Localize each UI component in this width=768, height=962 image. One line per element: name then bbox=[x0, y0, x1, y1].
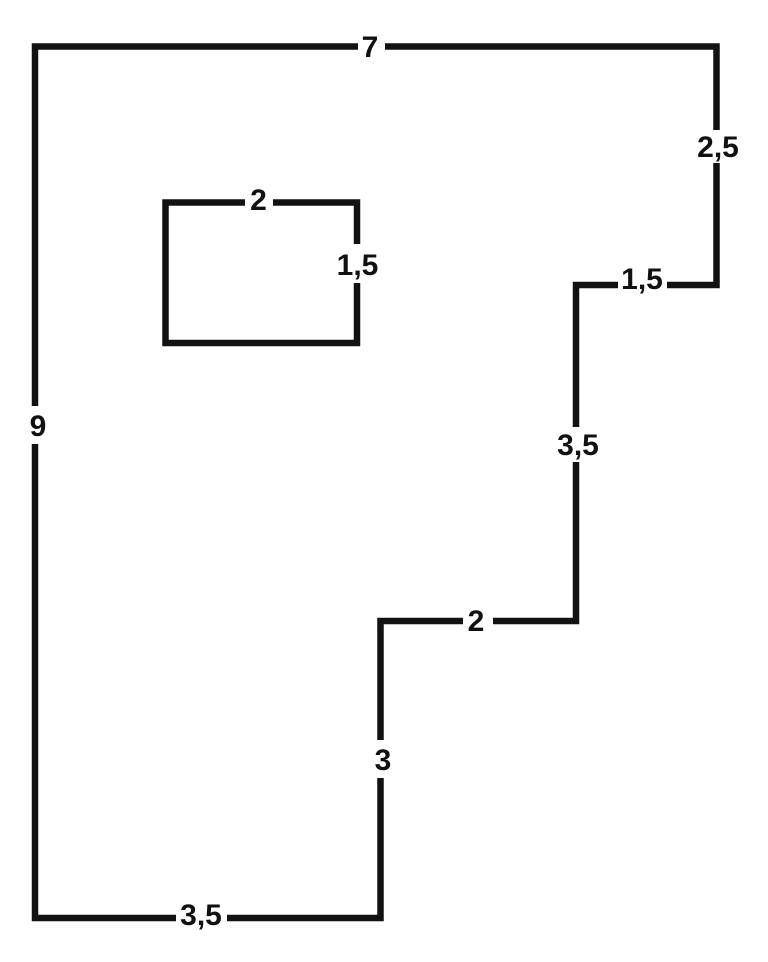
svg-text:2: 2 bbox=[468, 605, 485, 638]
node label 9 (left edge) bbox=[20, 406, 52, 444]
node label 1,5 (inner rect right) bbox=[336, 244, 379, 283]
svg-text:2: 2 bbox=[250, 184, 267, 217]
node label 1,5 (outer step) bbox=[618, 262, 667, 296]
node label 2 (middle step) bbox=[463, 604, 493, 638]
svg-text:2,5: 2,5 bbox=[697, 131, 739, 164]
node label 2 (inner rect top) bbox=[245, 184, 273, 217]
svg-text:1,5: 1,5 bbox=[337, 249, 379, 282]
node label 7 (top edge) bbox=[358, 31, 385, 64]
svg-text:7: 7 bbox=[362, 31, 379, 64]
svg-text:1,5: 1,5 bbox=[621, 263, 663, 296]
svg-text:3,5: 3,5 bbox=[180, 899, 222, 932]
node label 3 (lower vertical) bbox=[365, 740, 397, 778]
svg-text:9: 9 bbox=[30, 410, 47, 443]
wire inner rectangle bbox=[166, 203, 358, 344]
node label 2,5 (right edge) bbox=[697, 130, 740, 164]
node label 3,5 (right middle vertical) bbox=[555, 427, 601, 462]
svg-text:3,5: 3,5 bbox=[557, 429, 599, 462]
svg-text:3: 3 bbox=[375, 744, 392, 777]
node label 3,5 (bottom edge) bbox=[176, 899, 227, 937]
